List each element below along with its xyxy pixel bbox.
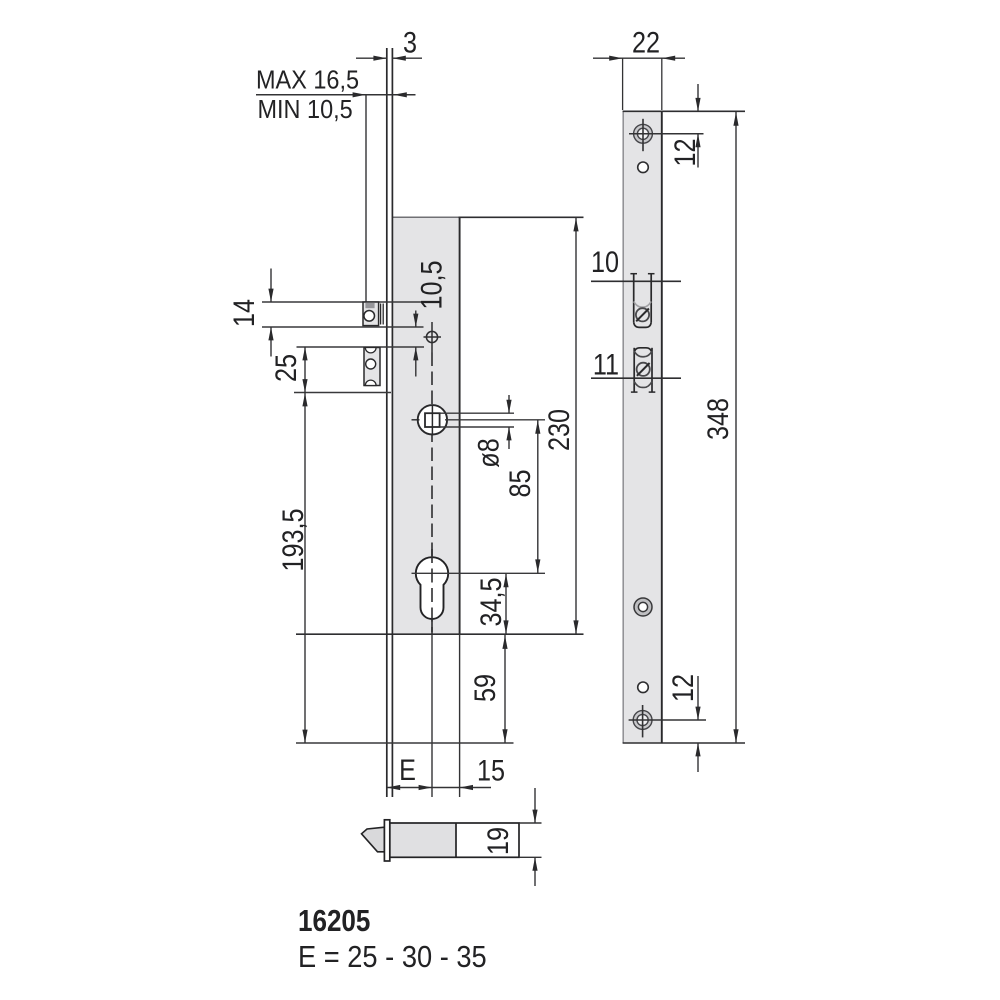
guide box xyxy=(364,348,380,386)
svg-text:230: 230 xyxy=(542,409,576,451)
latch wedge xyxy=(362,827,385,852)
svg-text:22: 22 xyxy=(632,25,660,59)
case box white part xyxy=(456,823,519,857)
svg-text:16205: 16205 xyxy=(298,904,370,939)
svg-text:25: 25 xyxy=(269,354,303,382)
strip bottom edge + extension right xyxy=(623,742,745,744)
spindle top extension line (o8 dim) xyxy=(441,412,515,414)
dim 14 xyxy=(270,269,272,303)
dim 19 extension lines xyxy=(519,822,542,824)
dim 12 bottom xyxy=(697,676,699,720)
body top edge + extension to 230 dim xyxy=(393,216,460,218)
strip left edge xyxy=(622,111,624,743)
spindle axis extension (85 dim) xyxy=(445,419,545,421)
svg-text:34,5: 34,5 xyxy=(474,577,508,626)
cutout A: slot + dowel hole xyxy=(630,274,654,328)
strip right edge xyxy=(661,111,663,743)
svg-text:14: 14 xyxy=(227,299,261,327)
dim 3 (faceplate thickness) xyxy=(356,57,387,59)
top screw hole with cross xyxy=(634,124,653,143)
dim o8 (spindle) xyxy=(508,395,510,413)
dim 22 (strip width) xyxy=(593,57,685,59)
reference line y=392.5 (25/193.5 shared) xyxy=(294,392,391,394)
svg-text:ø8: ø8 xyxy=(471,438,505,467)
cylinder axis extension (85/34.5 dims) xyxy=(412,572,546,574)
reference line y=302 (latch top) xyxy=(262,301,424,303)
centerline through cylinder xyxy=(431,549,433,634)
cutout B pin hole (o) xyxy=(637,363,650,376)
reference line y=327 (latch bottom) xyxy=(262,326,424,328)
dim 230 (body height) xyxy=(575,218,577,635)
svg-text:E: E xyxy=(399,753,416,787)
lock body plate (gray) xyxy=(393,217,460,634)
dim 10,5 (latch to guide) xyxy=(415,311,417,328)
faceplate cross-section xyxy=(384,820,389,861)
guide top notch xyxy=(365,348,376,353)
centerline solid extension below body xyxy=(431,634,433,797)
dim E / 15 line xyxy=(387,787,491,789)
svg-text:348: 348 xyxy=(701,398,735,440)
svg-text:11: 11 xyxy=(593,347,619,381)
guide middle hole xyxy=(366,359,376,369)
svg-text:10: 10 xyxy=(591,245,619,279)
svg-text:193,5: 193,5 xyxy=(276,508,310,571)
cutout B waist curves xyxy=(634,351,652,357)
latch bolt box xyxy=(363,302,379,326)
dim 25 xyxy=(304,347,306,393)
small hole lower xyxy=(638,682,649,693)
latch neck lines xyxy=(380,304,382,325)
dim 59 (body bottom to faceplate end) xyxy=(504,635,506,743)
svg-text:12: 12 xyxy=(668,138,702,166)
bottom screw hole with cross xyxy=(633,711,652,730)
svg-text:MAX 16,5: MAX 16,5 xyxy=(256,67,359,95)
svg-text:E = 25 - 30 - 35: E = 25 - 30 - 35 xyxy=(298,940,487,974)
dim 85 (spindle to cylinder) xyxy=(537,420,539,574)
cutout A pin hole (o) xyxy=(636,308,649,321)
dim 348 (strip length) xyxy=(735,112,737,743)
svg-text:15: 15 xyxy=(477,753,505,787)
body right edge xyxy=(459,217,461,634)
body right edge extension below body xyxy=(459,634,461,797)
crosshair reference mark xyxy=(424,322,442,353)
faceplate edge-on: front line xyxy=(386,48,388,797)
svg-text:12: 12 xyxy=(666,674,700,702)
case box gray part xyxy=(390,823,456,857)
reference line y=743 (bottom of faceplate) xyxy=(296,742,514,744)
dashed vertical centerline xyxy=(431,353,433,635)
dim 34,5 (cylinder to body bottom) xyxy=(505,573,507,634)
case divider line xyxy=(455,823,457,857)
body bottom edge + extensions xyxy=(296,633,584,635)
strip top edge + extension right xyxy=(623,110,745,112)
spindle centerline cross xyxy=(431,406,433,435)
case box outline xyxy=(390,823,519,857)
reference line y=347 (guide top) xyxy=(297,346,425,348)
cutout B lower waist curves xyxy=(634,382,652,388)
cutout A waist curves xyxy=(634,302,652,308)
svg-text:3: 3 xyxy=(403,25,417,59)
profile line x=366 (MAX/MIN reference) xyxy=(365,95,367,302)
cutout B: dowel hole + slot xyxy=(631,348,655,392)
countersunk hole middle xyxy=(634,598,652,616)
guide bottom notch xyxy=(365,380,376,385)
dim 19 xyxy=(534,788,536,823)
dim 12 top xyxy=(697,84,699,111)
spindle follower circle xyxy=(418,405,447,434)
svg-text:MIN 10,5: MIN 10,5 xyxy=(258,96,353,124)
faceplate edge-on: rear line xyxy=(391,48,393,797)
svg-text:59: 59 xyxy=(468,674,502,702)
latch bevel dark square xyxy=(365,303,374,308)
faceplate strip (gray) xyxy=(623,111,662,743)
svg-text:19: 19 xyxy=(481,827,515,855)
spindle bottom extension line (o8 dim) xyxy=(441,426,515,428)
dim 193,5 xyxy=(304,393,306,744)
svg-text:10,5: 10,5 xyxy=(414,260,448,309)
latch hole xyxy=(364,311,375,322)
euro cylinder hole xyxy=(416,557,448,619)
svg-text:85: 85 xyxy=(503,469,537,497)
spindle square hole xyxy=(425,413,440,427)
small hole below xyxy=(638,162,649,173)
